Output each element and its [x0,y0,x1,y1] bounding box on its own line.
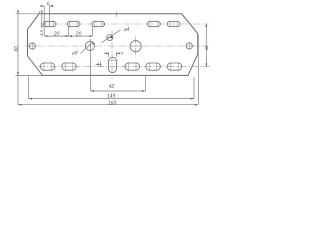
svg-text:42: 42 [109,84,115,90]
svg-text:149: 149 [107,94,116,100]
svg-text:20: 20 [53,31,60,37]
svg-text:20: 20 [75,31,82,37]
svg-text:4,5: 4,5 [39,29,44,36]
svg-text:⌀9: ⌀9 [72,51,78,57]
svg-text:⌀4: ⌀4 [124,27,130,33]
svg-text:60: 60 [14,46,20,52]
svg-text:160: 160 [108,100,117,106]
svg-text:42: 42 [204,45,209,50]
svg-text:6: 6 [47,1,50,7]
